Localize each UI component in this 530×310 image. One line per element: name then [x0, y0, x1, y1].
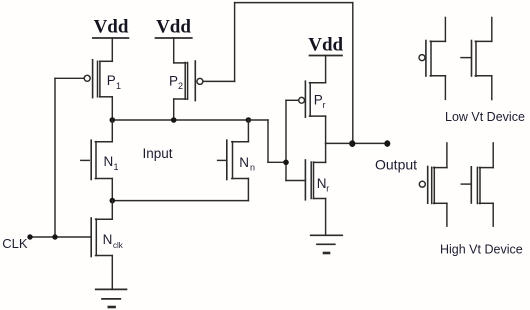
node N1/Nclk junction — [110, 198, 116, 204]
node output endpoint — [384, 140, 390, 147]
wire inverter input — [286, 100, 305, 180]
svg-text:P: P — [314, 92, 323, 107]
svg-text:1: 1 — [116, 81, 121, 91]
node output-feedback junction — [349, 140, 355, 147]
svg-text:P: P — [107, 73, 116, 88]
wire output line — [326, 142, 388, 144]
node inverter input junction — [283, 160, 289, 166]
wire precharge rail — [112, 119, 248, 121]
transistor P1 (high-Vt PMOS) — [55, 60, 121, 120]
svg-text:clk: clk — [113, 241, 124, 250]
svg-text:N: N — [104, 154, 114, 169]
wire feedback from output to P2 gate — [203, 3, 353, 144]
svg-text:P: P — [169, 73, 178, 88]
svg-text:r: r — [323, 100, 326, 110]
node rail-P2 junction — [171, 117, 177, 123]
svg-text:Vdd: Vdd — [156, 17, 191, 38]
legend low-Vt PMOS symbol — [419, 17, 445, 99]
Vdd supply P2 — [156, 17, 192, 63]
Vdd supply P1 — [93, 17, 129, 62]
svg-text:1: 1 — [114, 162, 119, 172]
svg-text:2: 2 — [178, 81, 183, 91]
legend high-Vt PMOS symbol — [419, 143, 447, 226]
transistor P2 (high-Vt PMOS, mirrored) — [169, 61, 203, 120]
svg-text:Input: Input — [143, 146, 173, 161]
transistor N1 (low-Vt NMOS) — [81, 120, 119, 201]
svg-text:N: N — [239, 155, 249, 170]
svg-text:Vdd: Vdd — [308, 34, 343, 55]
ground under Nr — [311, 235, 343, 253]
transistor Pr (low-Vt PMOS keeper) — [286, 81, 326, 143]
svg-text:n: n — [250, 163, 255, 173]
node CLK endpoint — [27, 234, 32, 239]
wire N1 foot to Nn foot — [112, 200, 248, 202]
legend high-Vt NMOS symbol — [461, 143, 493, 226]
wire CLK line — [30, 78, 91, 237]
transistor Nclk (low-Vt NMOS) — [91, 201, 124, 290]
svg-text:CLK: CLK — [2, 236, 28, 251]
node rail-Nn junction — [246, 117, 252, 123]
node CLK-P1 gate junction — [52, 234, 57, 239]
svg-text:Vdd: Vdd — [94, 17, 129, 38]
wire rail to inverter input — [248, 120, 286, 162]
ground under Nclk — [96, 289, 127, 307]
svg-text:Low Vt Device: Low Vt Device — [445, 110, 525, 124]
svg-text:r: r — [326, 183, 329, 193]
svg-text:N: N — [103, 232, 113, 247]
transistor Nr (high-Vt NMOS) — [305, 143, 329, 235]
node rail-P1 junction — [110, 117, 116, 123]
transistor Nn (low-Vt NMOS) — [218, 120, 255, 201]
svg-text:High Vt Device: High Vt Device — [440, 243, 523, 257]
Vdd supply Pr — [308, 34, 343, 82]
legend low-Vt NMOS symbol — [461, 17, 492, 99]
svg-text:Output: Output — [375, 156, 417, 172]
svg-text:N: N — [317, 176, 327, 191]
